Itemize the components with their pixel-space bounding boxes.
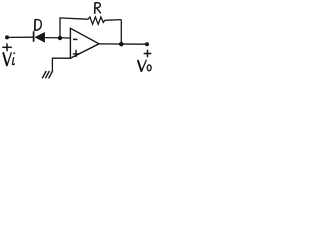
node: input terminal xyxy=(5,35,9,39)
ground xyxy=(42,71,52,78)
label: input polarity + xyxy=(2,43,12,51)
op-amp U1 xyxy=(70,28,99,58)
node: output terminal xyxy=(145,42,149,46)
resistor R xyxy=(87,17,105,24)
label: output polarity + xyxy=(144,50,152,58)
diode D xyxy=(34,31,45,42)
wire: non-inverting input to ground xyxy=(52,58,70,71)
wire: diode to op-amp inverting input xyxy=(45,37,71,39)
op-amp inverting input marker (-) xyxy=(73,38,77,40)
wire: input terminal to diode cathode xyxy=(7,36,34,38)
wire: op-amp output to output terminal xyxy=(99,43,147,45)
op-amp non-inverting input marker (+) xyxy=(73,50,79,57)
wire: feedback top horizontal to resistor xyxy=(59,18,86,19)
wire: resistor to feedback corner xyxy=(105,19,122,22)
label D xyxy=(35,20,42,31)
junction: inverting input node xyxy=(58,36,62,40)
label R xyxy=(95,3,101,14)
label Vo xyxy=(138,60,151,71)
wire: feedback vertical drop to output xyxy=(120,20,122,44)
label Vi xyxy=(3,52,15,65)
wire: feedback vertical riser xyxy=(59,18,61,38)
junction: output node xyxy=(119,42,124,47)
